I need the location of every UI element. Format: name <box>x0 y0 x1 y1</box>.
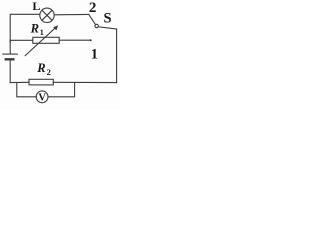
switch S pivot <box>95 24 98 27</box>
wire R1 to contact 1 <box>59 39 91 41</box>
contact 1 dot <box>90 39 92 41</box>
svg-text:V: V <box>38 93 46 104</box>
battery: short thick plate <box>6 58 14 60</box>
wire pivot to right rail <box>98 27 116 29</box>
wire R2 to bottom right corner <box>53 81 116 83</box>
wire battery to bottom corner <box>9 61 11 83</box>
wire left rail upper to battery <box>9 40 11 53</box>
wire left rail to R1 <box>10 39 33 41</box>
wire voltmeter to right riser <box>48 83 75 97</box>
svg-text:S: S <box>104 11 112 27</box>
arrow of rheostat R1 <box>25 25 58 55</box>
svg-text:2: 2 <box>47 67 51 77</box>
switch S blade <box>89 14 96 24</box>
wire top-left: corner to lamp <box>10 14 40 42</box>
resistor R1 <box>33 37 59 43</box>
svg-text:R: R <box>30 21 39 35</box>
wire lamp to switch contact 2 <box>54 13 89 15</box>
wire right rail <box>116 29 118 83</box>
battery: long plate <box>3 53 17 55</box>
wire bottom left to R2 <box>10 81 29 83</box>
svg-text:2: 2 <box>89 0 97 16</box>
svg-text:1: 1 <box>40 28 44 37</box>
svg-text:1: 1 <box>91 47 98 63</box>
lamp L <box>40 8 54 22</box>
wire voltmeter branch left riser <box>17 83 36 97</box>
voltmeter V <box>36 91 48 103</box>
resistor R2 <box>29 79 53 85</box>
svg-text:R: R <box>36 61 45 75</box>
svg-text:L: L <box>32 0 40 13</box>
